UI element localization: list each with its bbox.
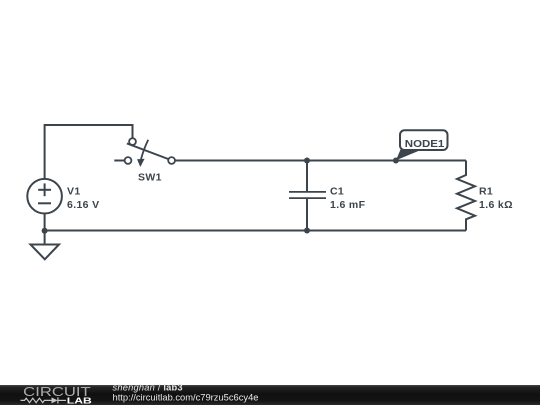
svg-text:http://circuitlab.com/c79rzu5c: http://circuitlab.com/c79rzu5c6cy4e [113,392,259,402]
svg-text:LAB: LAB [67,396,92,405]
svg-text:R1: R1 [479,185,493,197]
svg-text:NODE1: NODE1 [405,138,445,150]
svg-text:shenghan / lab3: shenghan / lab3 [113,383,183,393]
svg-text:1.6 mF: 1.6 mF [330,199,366,211]
svg-text:1.6 kΩ: 1.6 kΩ [479,199,513,211]
svg-text:C1: C1 [330,185,344,197]
svg-text:SW1: SW1 [138,172,162,184]
svg-text:V1: V1 [67,185,81,197]
svg-text:6.16 V: 6.16 V [67,199,99,211]
